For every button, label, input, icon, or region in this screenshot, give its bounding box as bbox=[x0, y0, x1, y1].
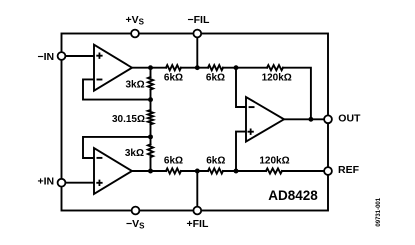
resistor R4 6k top second zigzag bbox=[208, 65, 223, 70]
resistor R6 6k bottom first zigzag bbox=[166, 168, 181, 173]
wire gain chain bottom segment bbox=[150, 157, 152, 171]
label 30.15 value bbox=[112, 114, 145, 125]
wire -FIL pin drop bbox=[196, 34, 198, 68]
pin +FIL bbox=[187, 207, 209, 231]
label figure number 09731-001 bbox=[376, 197, 382, 226]
wire N2b to A3 plus input bbox=[236, 132, 246, 171]
label 120k top value bbox=[262, 72, 292, 83]
node A3 plus junction bbox=[234, 169, 239, 174]
svg-text:120kΩ: 120kΩ bbox=[259, 155, 289, 166]
node gain resistor upper bbox=[148, 97, 153, 102]
wire A3 output to OUT pin bbox=[284, 118, 328, 120]
pin -FIL bbox=[188, 14, 210, 37]
label 3k bottom value bbox=[125, 148, 144, 159]
svg-text:6kΩ: 6kΩ bbox=[164, 156, 183, 167]
svg-text:OUT: OUT bbox=[338, 112, 361, 124]
svg-text:AD8428: AD8428 bbox=[268, 188, 318, 203]
wire top row between 6k resistors bbox=[181, 67, 208, 69]
label 6k top second value bbox=[206, 72, 225, 83]
label 120k bottom value bbox=[259, 155, 289, 166]
label 6k bottom second value bbox=[206, 156, 225, 167]
svg-text:−FIL: −FIL bbox=[188, 14, 210, 26]
svg-text:6kΩ: 6kΩ bbox=[206, 72, 225, 83]
node -FIL junction bbox=[195, 65, 200, 70]
pin -Vs bbox=[126, 207, 145, 231]
pin REF bbox=[324, 164, 359, 176]
resistor R1 3k top zigzag bbox=[148, 77, 153, 90]
wire gain chain segment 3 bbox=[150, 125, 152, 145]
wire +IN input to A2 + bbox=[62, 182, 95, 184]
node gain resistor lower bbox=[148, 134, 153, 139]
pin -IN bbox=[38, 51, 66, 63]
svg-text:3kΩ: 3kΩ bbox=[125, 148, 144, 159]
node output feedback junction bbox=[308, 117, 313, 122]
wire gain chain top segment bbox=[150, 68, 152, 77]
svg-text:+FIL: +FIL bbox=[187, 218, 209, 230]
pin +IN bbox=[38, 176, 66, 188]
svg-text:3kΩ: 3kΩ bbox=[125, 79, 144, 90]
svg-text:30.15Ω: 30.15Ω bbox=[112, 114, 145, 125]
wire +FIL pin riser bbox=[196, 171, 198, 211]
wire N2 to A3 minus input bbox=[236, 68, 246, 107]
wire 120k to REF pin bbox=[282, 170, 328, 172]
node +FIL junction bbox=[195, 169, 200, 174]
resistor R7 6k bottom second zigzag bbox=[208, 168, 223, 173]
wire top row A1 output to 6k bbox=[132, 67, 167, 69]
wire bottom row between 6k resistors bbox=[181, 170, 208, 172]
wire bottom row 6k to 120k bbox=[223, 170, 266, 172]
wire 120k feedback to output node bbox=[283, 68, 311, 120]
wire A1 feedback loop bbox=[83, 79, 148, 99]
svg-text:+IN: +IN bbox=[38, 176, 55, 188]
svg-text:6kΩ: 6kΩ bbox=[164, 72, 183, 83]
svg-text:REF: REF bbox=[338, 164, 360, 176]
node A2 output bbox=[148, 169, 153, 174]
resistor R5 120k feedback zigzag bbox=[267, 65, 283, 70]
svg-text:120kΩ: 120kΩ bbox=[262, 72, 292, 83]
resistor R8 120k to REF zigzag bbox=[266, 168, 282, 173]
op-amp A3 output amplifier bbox=[246, 97, 284, 142]
node A3 minus junction bbox=[234, 65, 239, 70]
op-amp A1 bbox=[94, 45, 132, 91]
IC package outline bbox=[62, 34, 329, 211]
svg-text:6kΩ: 6kΩ bbox=[206, 156, 225, 167]
wire bottom row A2 output to 6k bbox=[132, 170, 167, 172]
svg-text:−IN: −IN bbox=[38, 51, 55, 63]
wire -IN input to A1 + bbox=[62, 55, 95, 57]
label 3k top value bbox=[125, 79, 144, 90]
label AD8428 part number bbox=[268, 188, 318, 203]
resistor R2 3k bottom zigzag bbox=[148, 144, 153, 157]
op-amp A2 bbox=[94, 148, 132, 194]
wire gain chain segment 2 bbox=[150, 90, 152, 110]
svg-text:09731-001: 09731-001 bbox=[376, 197, 382, 226]
wire top row 6k to 120k bbox=[223, 67, 267, 69]
resistor RG 30.15 zigzag bbox=[148, 110, 153, 124]
wire A2 feedback loop bbox=[83, 137, 148, 158]
node A1 output bbox=[148, 65, 153, 70]
label 6k bottom first value bbox=[164, 156, 183, 167]
resistor R3 6k top first zigzag bbox=[166, 65, 181, 70]
pin +Vs bbox=[126, 14, 145, 37]
label 6k top first value bbox=[164, 72, 183, 83]
pin OUT bbox=[324, 112, 361, 124]
